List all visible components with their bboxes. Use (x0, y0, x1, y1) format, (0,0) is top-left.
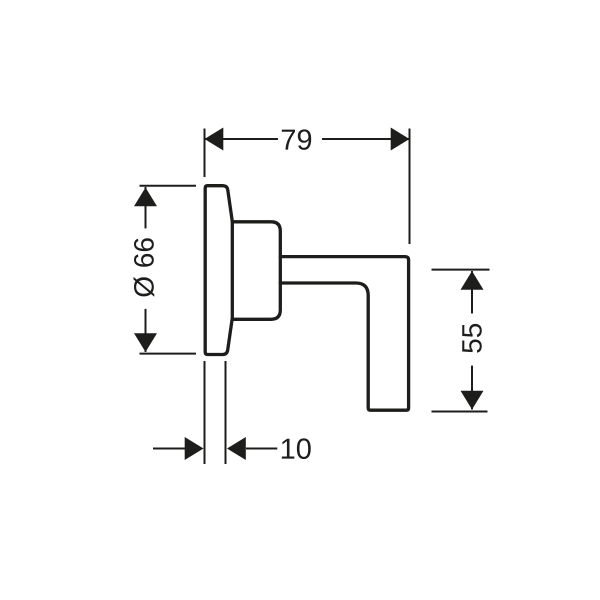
dim 79: right arrowhead (391, 128, 410, 151)
dim 10: right arrowhead (227, 437, 246, 460)
dim 55: top arrowhead (461, 271, 484, 290)
dim Ø66: top arrowhead (134, 188, 157, 207)
dim 55: value label "55" (rotated) (462, 324, 482, 353)
dim Ø66: bottom arrowhead (134, 333, 157, 352)
dim 10: left extension line (204, 361, 206, 464)
dim 79: dimension line right segment (322, 138, 410, 140)
dim 79: left arrowhead (205, 128, 224, 151)
cartridge sleeve (232, 222, 280, 319)
dim Ø66: dimension line bottom segment (145, 309, 147, 352)
escutcheon plate profile (205, 186, 232, 355)
lever handle (280, 257, 408, 411)
dim 10: dimension line right segment (246, 448, 277, 450)
dim 10: value label "10" (282, 438, 311, 459)
dim 55: top extension line (432, 269, 490, 271)
dim 55: dimension line top segment (471, 271, 473, 314)
dim 79: right extension line (409, 129, 411, 245)
dim 79: value label "79" (282, 129, 311, 150)
dim 10: left arrowhead (185, 437, 204, 460)
dim 55: dimension line bottom segment (471, 366, 473, 410)
dim Ø66: value label "Ø 66" (rotated) (134, 238, 155, 297)
dim 79: dimension line left segment (205, 138, 279, 140)
dim 79: left extension line (204, 129, 206, 178)
dim 55: bottom extension line (432, 411, 488, 413)
dim 10: right extension line (225, 361, 227, 464)
dim 10: dimension line left segment (153, 448, 185, 450)
dim Ø66: top extension line (140, 185, 197, 187)
dim 55: bottom arrowhead (461, 391, 484, 410)
dim Ø66: bottom extension line (140, 353, 197, 355)
dim Ø66: dimension line top segment (145, 187, 147, 228)
